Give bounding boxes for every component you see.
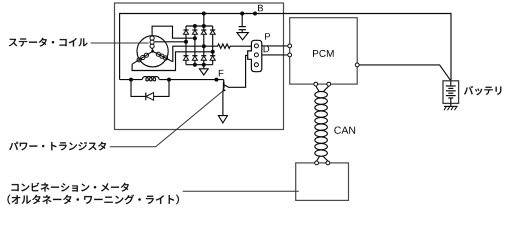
combination meter box bbox=[296, 163, 349, 201]
transistor emitter with arrow bbox=[223, 86, 224, 90]
combination meter label line2 bbox=[8, 195, 179, 205]
wire PCM to battery bbox=[359, 65, 451, 81]
ground (capacitor) bbox=[237, 33, 248, 40]
F label bbox=[219, 70, 224, 77]
stator coil label bbox=[9, 38, 88, 47]
wire phase: coil tap to col1 bbox=[155, 41, 186, 43]
ground (transistor) bbox=[218, 116, 227, 123]
meter pin 1 bbox=[315, 161, 319, 165]
transistor collector path to connector D bbox=[224, 55, 248, 87]
PCM label bbox=[313, 50, 334, 57]
wire emitter to ground bbox=[222, 91, 224, 116]
diode column 3 bbox=[201, 26, 206, 65]
rectifier bottom rail bbox=[186, 64, 213, 66]
battery cells bbox=[446, 81, 456, 104]
battery ground (chassis) bbox=[444, 103, 458, 110]
flyback diode loop wires bbox=[131, 80, 169, 97]
node F terminal dot bbox=[214, 78, 218, 82]
capacitor C1 bbox=[241, 14, 243, 27]
node field coil left bbox=[129, 78, 133, 82]
D label bbox=[264, 46, 270, 53]
transistor Q1 base bar + leads bbox=[223, 80, 225, 82]
power transistor label pointer bbox=[110, 91, 223, 147]
connector pin D bbox=[254, 53, 258, 57]
battery label bbox=[464, 86, 501, 95]
node phase junctions bbox=[184, 40, 188, 44]
diode column 1 bbox=[183, 26, 188, 65]
connector (P/D) housing bbox=[248, 40, 262, 71]
node field coil right bbox=[167, 78, 171, 82]
stator coil windings bbox=[132, 36, 173, 64]
meter pin 2 bbox=[326, 161, 330, 165]
B label bbox=[258, 5, 263, 12]
resistor R1 bbox=[204, 44, 252, 48]
power transistor label bbox=[9, 142, 106, 151]
wire P to PCM bbox=[262, 45, 288, 47]
CAN label bbox=[334, 127, 355, 134]
PCM pin CAN2 bbox=[327, 82, 331, 86]
PCM pin P bbox=[288, 44, 292, 48]
PCM pin right bbox=[355, 63, 359, 67]
connector pin P bbox=[254, 44, 258, 48]
diode column 4 bbox=[210, 26, 215, 65]
connector pin (spare) bbox=[254, 63, 258, 67]
flyback diode D1 (pointing left) bbox=[146, 93, 154, 101]
node B terminal dot bbox=[253, 12, 257, 16]
combination meter label line1 bbox=[12, 183, 129, 192]
wire phase: left coil under-circle to col4 bbox=[132, 52, 213, 71]
stator coil label pointer bbox=[91, 42, 149, 44]
diode column 2 bbox=[192, 26, 197, 65]
wire B+ : left riser, top run, drop to battery bbox=[120, 14, 451, 81]
combination meter label pointer bbox=[183, 190, 299, 192]
wire phase: top coil over-top to col2 bbox=[152, 26, 195, 38]
PCM box U1 bbox=[290, 18, 358, 84]
stator coil (circle) bbox=[137, 36, 168, 67]
PCM pin CAN1 bbox=[314, 82, 318, 86]
node: capacitor tap bbox=[240, 12, 244, 16]
node: rectifier riser junction bbox=[202, 12, 206, 16]
wire D to PCM bbox=[262, 54, 288, 56]
field coil L1 bbox=[142, 77, 159, 81]
field wire B to F bbox=[120, 79, 143, 81]
P label bbox=[265, 33, 270, 40]
wire phase: right coil to col3 bbox=[173, 46, 204, 62]
ground (rectifier) bbox=[203, 65, 205, 69]
battery BT1 box bbox=[443, 81, 459, 104]
rectifier riser to B wire bbox=[203, 14, 205, 27]
PCM pin D bbox=[288, 53, 292, 57]
rectifier top rail bbox=[186, 25, 213, 27]
CAN twisted pair bbox=[315, 86, 329, 161]
alternator box bbox=[115, 3, 284, 130]
